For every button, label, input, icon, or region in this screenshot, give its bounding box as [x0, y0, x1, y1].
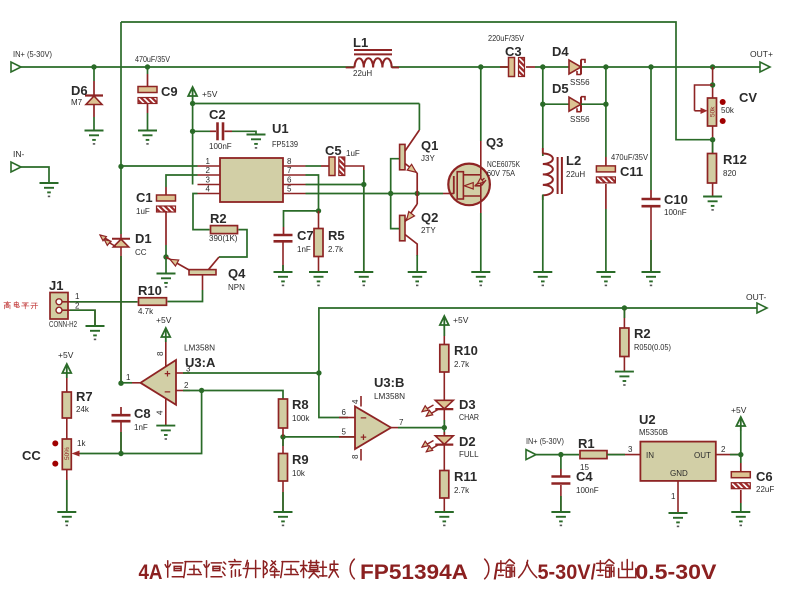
terminal OUT-	[757, 303, 767, 313]
svg-text:M7: M7	[71, 98, 83, 107]
svg-text:C1: C1	[136, 190, 153, 205]
svg-text:R10: R10	[454, 343, 478, 358]
svg-text:1nF: 1nF	[297, 245, 311, 254]
node D5 L2 junction	[540, 102, 545, 107]
label R11	[454, 469, 477, 495]
power +5V R7	[58, 350, 74, 378]
node C5 pin6 junction	[361, 182, 366, 187]
capacitor C11	[563, 166, 630, 183]
ground shunt R2	[615, 372, 634, 386]
svg-text:J3Y: J3Y	[421, 154, 435, 163]
ground CC pot	[57, 512, 76, 526]
pin U3B.5 stub	[339, 428, 355, 437]
pin J1.2 wire	[63, 302, 96, 327]
wire D5 branch	[543, 67, 569, 104]
label R10 4.7k	[138, 283, 162, 316]
svg-text:4A: 4A	[139, 561, 163, 584]
node Q1Q2 base junction	[388, 191, 393, 196]
wire bus to D1	[120, 234, 122, 239]
pin U1.7 stub	[283, 166, 306, 175]
label L1	[352, 35, 372, 78]
regulator U2 body	[640, 442, 715, 481]
wire C5 right down	[345, 166, 364, 272]
capacitor C10	[642, 199, 661, 206]
svg-text:1: 1	[671, 492, 676, 501]
svg-text:4: 4	[351, 399, 360, 404]
power +5V U3A	[156, 315, 172, 342]
svg-text:IN+ (5-30V): IN+ (5-30V)	[13, 49, 52, 59]
svg-text:2.7k: 2.7k	[328, 245, 344, 254]
op-amp U3:A	[141, 360, 177, 405]
wire U1 pin2 to C1	[166, 175, 198, 195]
capacitor C4	[551, 477, 570, 484]
svg-text:3: 3	[628, 445, 633, 454]
ground C10	[642, 272, 661, 286]
node U3A pin2 junction	[199, 388, 204, 393]
label OUT+	[750, 49, 773, 59]
label R7	[76, 389, 93, 414]
svg-text:6: 6	[342, 408, 347, 417]
label CC pot	[22, 439, 86, 463]
svg-text:D4: D4	[552, 44, 569, 59]
wire OUT- rail	[319, 308, 757, 373]
resistor R11	[440, 471, 449, 499]
op IC U1 FP5139 body	[220, 158, 283, 202]
resistor R10 2.7k	[440, 345, 449, 373]
wire C4 to ground	[560, 485, 562, 512]
label D3	[459, 397, 479, 422]
svg-text:−: −	[360, 413, 366, 425]
node C10 rail tap	[648, 64, 653, 69]
svg-text:0.5-30V: 0.5-30V	[635, 561, 716, 584]
wire CV top stem	[712, 67, 714, 98]
wire D6 branch	[93, 67, 95, 95]
wire D6 to ground	[93, 105, 95, 131]
svg-text:60V 75A: 60V 75A	[487, 169, 516, 178]
svg-text:390(1K): 390(1K)	[209, 234, 238, 243]
node C11 rail tap	[603, 64, 608, 69]
wire pot to ground	[66, 470, 68, 513]
node Q4 emitter junction	[163, 254, 168, 259]
pin U3A.8	[156, 342, 166, 367]
wire R8R9 to U3B pin5	[283, 436, 355, 438]
op-amp U3:B	[355, 407, 391, 450]
svg-text:3: 3	[186, 365, 191, 374]
svg-text:2.7k: 2.7k	[454, 360, 470, 369]
power +5V main	[188, 87, 197, 101]
pin U1.5 stub	[283, 185, 306, 194]
capacitor C7	[274, 235, 293, 241]
svg-text:IN-: IN-	[13, 149, 25, 159]
svg-text:C10: C10	[664, 192, 688, 207]
svg-text:+5V: +5V	[731, 405, 747, 415]
node CV wiper junction	[710, 82, 715, 87]
label R2 390	[209, 211, 238, 243]
label IN+ (5-30V)	[13, 49, 52, 59]
label Q3	[486, 135, 521, 178]
label C2	[209, 107, 232, 151]
svg-text:D2: D2	[459, 434, 476, 449]
wire U1 pin7 net	[306, 175, 319, 211]
svg-text:+5V: +5V	[58, 350, 74, 360]
svg-text:470uF/35V: 470uF/35V	[611, 153, 649, 162]
pin U1.4 stub	[198, 185, 221, 194]
label C7	[297, 228, 314, 254]
svg-text:NCE6075K: NCE6075K	[487, 160, 521, 169]
svg-text:7: 7	[287, 166, 292, 175]
ground Q2	[408, 272, 427, 286]
svg-text:U3:B: U3:B	[374, 375, 404, 390]
capacitor C2	[218, 122, 224, 140]
node C7 R5 junction	[316, 208, 321, 213]
svg-text:CC: CC	[22, 448, 41, 463]
svg-text:CHAR: CHAR	[459, 413, 479, 422]
svg-text:5-30V: 5-30V	[538, 561, 591, 584]
svg-text:D6: D6	[71, 83, 88, 98]
resistor R7	[62, 392, 71, 418]
pin U1.8 stub	[283, 157, 306, 166]
node R8 R9 junction	[280, 434, 285, 439]
wire R2 to Q4 collector	[219, 230, 247, 257]
wire C2 left	[193, 130, 216, 132]
wire main vertical bus x=121 upper	[120, 22, 122, 234]
node CV rail tap	[710, 64, 715, 69]
pin U1.1 stub	[198, 157, 221, 166]
diode D6	[85, 96, 103, 105]
ground IN-	[40, 183, 59, 197]
label D5	[552, 81, 590, 124]
svg-text:OUT+: OUT+	[750, 49, 773, 59]
wire R7 to pot	[66, 418, 68, 439]
label Q1	[421, 138, 438, 163]
transistor Q3 body	[443, 164, 490, 206]
svg-text:CV: CV	[739, 90, 757, 105]
svg-text:R1: R1	[578, 436, 595, 451]
label R12	[723, 152, 747, 178]
svg-text:FP5139: FP5139	[272, 140, 299, 149]
node Q3 drain tap	[478, 64, 483, 69]
wire aux in	[536, 454, 579, 456]
svg-text:+5V: +5V	[453, 315, 469, 325]
ground C6	[731, 512, 750, 526]
svg-text:D3: D3	[459, 397, 476, 412]
resistor R2 shunt	[620, 328, 629, 357]
node D3 D2 junction	[442, 425, 447, 430]
potentiometer CC body	[52, 439, 80, 470]
svg-text:2: 2	[184, 381, 189, 390]
svg-text:R050(0.05): R050(0.05)	[634, 343, 671, 352]
label Q2	[421, 210, 438, 235]
wire IN- to ground	[21, 167, 49, 183]
terminal OUT+	[760, 62, 770, 72]
label CV	[721, 90, 757, 115]
potentiometer CV body	[708, 98, 726, 126]
wire C1 to emitter node	[165, 211, 167, 274]
ground Q3	[471, 272, 490, 286]
svg-text:220uF/35V: 220uF/35V	[488, 34, 525, 43]
wire Q3 drain	[480, 67, 482, 175]
inductor L1	[346, 50, 399, 68]
ground U2	[669, 513, 688, 527]
pin U1.2 stub	[198, 166, 221, 175]
pin U3B.6 stub	[339, 408, 355, 418]
svg-text:8: 8	[156, 351, 165, 356]
node C9 tap	[145, 64, 150, 69]
svg-text:/: /	[494, 561, 499, 584]
wire C3 to D4	[500, 66, 569, 68]
wire junction to C7	[284, 211, 319, 235]
pin U2.1 wire	[671, 481, 678, 513]
node D5 branch top	[540, 64, 545, 69]
wire R7 top	[66, 378, 68, 392]
wire C10 top	[650, 67, 652, 199]
label +5V main	[202, 89, 218, 99]
svg-text:100nF: 100nF	[209, 142, 232, 151]
label C6	[756, 469, 774, 494]
label D6	[71, 83, 88, 107]
node D5 C11 junction	[603, 102, 608, 107]
svg-text:1: 1	[75, 292, 80, 301]
label R1	[578, 436, 595, 472]
node pin1 bus junction	[118, 164, 123, 169]
ground J1	[86, 326, 105, 340]
svg-text:J1: J1	[49, 278, 63, 293]
svg-text:R8: R8	[292, 397, 309, 412]
ground C5 net	[354, 272, 373, 286]
ground U3A	[156, 426, 175, 440]
svg-text:SS56: SS56	[570, 78, 590, 87]
svg-text:22uF: 22uF	[756, 485, 774, 494]
ground C1 Q4	[157, 274, 176, 288]
node CV R12 junction	[710, 137, 715, 142]
resistor R12	[708, 154, 717, 184]
label C10	[664, 192, 688, 217]
pin U3B.4 stub	[351, 396, 361, 407]
terminal IN+ aux	[526, 450, 536, 460]
svg-text:+: +	[164, 369, 170, 381]
wire +5V to Q1 collector	[418, 104, 420, 131]
svg-text:IN+ (5-30V): IN+ (5-30V)	[526, 437, 564, 446]
wire D2 to R11	[443, 445, 445, 471]
wire Q3 source to ground	[480, 196, 482, 272]
svg-text:7: 7	[399, 418, 404, 427]
wire D4 out to OUT+ terminal	[581, 66, 760, 68]
svg-text:1k: 1k	[77, 439, 86, 448]
wire pin3 down to U3B pin6	[319, 373, 348, 418]
capacitor C9	[105, 87, 172, 104]
ground C2	[247, 135, 266, 149]
svg-text:+5V: +5V	[156, 315, 172, 325]
power +5V R10b	[440, 315, 469, 330]
diode D4	[569, 60, 585, 75]
capacitor C3	[486, 58, 566, 77]
ground C4	[551, 512, 570, 526]
svg-text:4: 4	[156, 410, 165, 415]
label J1	[49, 278, 77, 329]
svg-text:1: 1	[126, 373, 131, 382]
svg-text:R9: R9	[292, 452, 309, 467]
label C4	[576, 469, 599, 495]
wire U1 pin8 to C5	[306, 165, 330, 167]
svg-text:Q3: Q3	[486, 135, 503, 150]
svg-text:C4: C4	[576, 469, 593, 484]
svg-text:L2: L2	[566, 153, 581, 168]
wire R10b to D3	[443, 372, 445, 400]
wire R1 to U2	[607, 445, 640, 455]
resistor R1	[580, 451, 607, 459]
label U3:B	[374, 375, 405, 401]
label IN+ aux	[526, 437, 564, 446]
label C8	[134, 406, 151, 432]
wire R8 bottom	[282, 428, 284, 437]
wire D5 to C11 node	[581, 103, 606, 105]
pin U3B.7 wire	[391, 418, 444, 428]
label C9	[135, 55, 178, 99]
wire C4 stem	[560, 455, 562, 476]
wire C6 stem	[740, 455, 742, 472]
svg-text:FULL: FULL	[459, 450, 479, 459]
svg-text:50k: 50k	[710, 106, 717, 117]
wire +5V to C6 node	[740, 431, 742, 455]
led D2	[422, 436, 453, 452]
wire R9 top	[282, 437, 284, 454]
svg-text:LM358N: LM358N	[374, 392, 405, 401]
wire L2 to ground	[542, 195, 544, 273]
wire top feedback net	[121, 22, 713, 140]
svg-text:2: 2	[206, 166, 211, 175]
label C1	[136, 190, 153, 216]
label D4	[552, 44, 590, 87]
svg-text:SS56: SS56	[570, 115, 590, 124]
svg-text:R11: R11	[454, 469, 477, 484]
label L2	[566, 153, 585, 179]
led D1	[100, 235, 130, 247]
wire C7 to ground	[282, 243, 284, 273]
label R10 2.7k	[454, 343, 478, 369]
wire U1 pin1 to bus	[121, 165, 198, 167]
pin U1.6 stub	[283, 176, 306, 185]
pin U3B.8 stub	[351, 449, 361, 461]
svg-text:50k: 50k	[721, 106, 735, 115]
svg-text:C7: C7	[297, 228, 314, 243]
wire L1 to C3	[391, 66, 509, 68]
wire C11 top	[605, 67, 607, 166]
svg-text:/: /	[591, 561, 596, 584]
pin U3A.2 wire	[176, 381, 283, 399]
transistor Q1 body	[400, 130, 420, 194]
label U3:A	[184, 344, 216, 371]
svg-text:6: 6	[287, 176, 292, 185]
label C11	[611, 153, 649, 179]
node +5V arrow junction	[190, 101, 195, 106]
node C8 wiper junction	[118, 451, 123, 456]
label R5	[328, 228, 345, 254]
label R2 shunt	[634, 326, 671, 352]
pin U1.3 stub	[198, 176, 221, 185]
pin U3A.4	[156, 399, 166, 426]
wire U1 pin6	[306, 184, 364, 186]
svg-text:CONN-H2: CONN-H2	[49, 320, 77, 329]
led D3	[422, 400, 453, 416]
wire R9 to ground	[282, 481, 284, 512]
pin U2.2 wire	[716, 445, 741, 455]
svg-text:C6: C6	[756, 469, 773, 484]
svg-text:C5: C5	[325, 143, 342, 158]
label D1	[135, 231, 152, 257]
wire C8 bottom	[120, 423, 122, 454]
svg-text:4: 4	[206, 185, 211, 194]
svg-text:Q1: Q1	[421, 138, 438, 153]
svg-text:CC: CC	[135, 248, 147, 257]
wire Q2 base	[391, 194, 400, 229]
wire R12 to ground	[712, 183, 714, 197]
svg-text:R2: R2	[634, 326, 651, 341]
svg-text:D1: D1	[135, 231, 152, 246]
pin U3A.1 wire	[121, 373, 141, 383]
node D6 tap	[91, 64, 96, 69]
pin J1.1 wire	[63, 292, 138, 302]
title text	[139, 559, 717, 584]
svg-text:1uF: 1uF	[346, 149, 360, 158]
svg-text:R10: R10	[138, 283, 162, 298]
svg-text:C8: C8	[134, 406, 151, 421]
svg-text:FP51394A: FP51394A	[360, 561, 468, 584]
wire input rail IN+ to L1	[21, 66, 354, 68]
svg-text:U1: U1	[272, 121, 289, 136]
transistor Q4 body	[166, 257, 219, 275]
terminal IN-	[11, 162, 21, 172]
svg-text:C2: C2	[209, 107, 226, 122]
resistor R8	[279, 399, 288, 428]
svg-text:U2: U2	[639, 412, 656, 427]
ground R11	[435, 512, 454, 526]
wire Q1 base	[391, 159, 400, 194]
wire +5V rail	[193, 101, 420, 104]
ground R5	[309, 272, 328, 286]
capacitor C8	[112, 415, 131, 421]
ground C9	[138, 131, 157, 145]
resistor R10 4.7k	[139, 298, 167, 306]
pin U3A.3 wire	[176, 365, 319, 374]
svg-text:4.7k: 4.7k	[138, 307, 154, 316]
svg-text:5: 5	[287, 185, 292, 194]
svg-text:24k: 24k	[76, 405, 90, 414]
svg-text:2TY: 2TY	[421, 226, 436, 235]
resistor R2 390	[211, 226, 238, 234]
wire Q2 collector to ground	[416, 255, 418, 272]
wire C10 to ground	[650, 208, 652, 273]
ground C7	[274, 272, 293, 286]
wire +5V down to U1 pin3	[192, 104, 194, 185]
label OUT-	[746, 292, 766, 302]
svg-text:820: 820	[723, 169, 737, 178]
wire node to D2	[443, 428, 445, 436]
svg-text:1nF: 1nF	[134, 423, 148, 432]
label D2	[459, 434, 479, 459]
svg-text:10k: 10k	[292, 469, 306, 478]
ground L2	[533, 272, 552, 286]
wire CV wiper	[695, 85, 713, 114]
wire U1 pin5 row	[306, 193, 444, 195]
inductor L2	[543, 148, 562, 200]
node Q1 emitter junction	[415, 191, 420, 196]
svg-text:GND: GND	[670, 469, 688, 478]
ground C11	[596, 272, 615, 286]
svg-text:Q4: Q4	[228, 266, 246, 281]
wire L2 top	[542, 104, 544, 156]
resistor R5	[314, 229, 323, 257]
svg-text:R5: R5	[328, 228, 345, 243]
